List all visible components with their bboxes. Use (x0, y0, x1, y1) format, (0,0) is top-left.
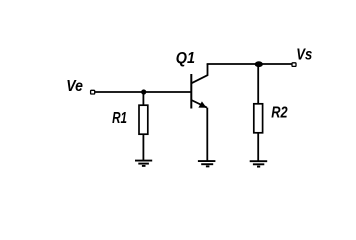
transistor Q1 collector lead (191, 64, 207, 83)
svg-text:R1: R1 (112, 110, 127, 127)
junction dot at collector node (255, 61, 263, 67)
ground below R2 (250, 161, 268, 166)
transistor Q1 emitter lead (191, 100, 207, 108)
transistor Q1 emitter arrow (198, 101, 206, 107)
wire: emitter down to ground (206, 108, 208, 161)
ground below emitter (198, 161, 216, 166)
wire: collector node down to R2 (257, 64, 259, 104)
transistor Q1 base bar (190, 74, 192, 109)
junction dot at base node (141, 89, 146, 94)
svg-text:Vs: Vs (296, 47, 312, 64)
wire: base node down to R1 (142, 92, 144, 105)
wire: R2 to ground (257, 133, 259, 161)
ground below R1 (135, 161, 152, 166)
svg-text:R2: R2 (271, 105, 287, 122)
svg-text:Q1: Q1 (176, 50, 195, 67)
node Ve (input terminal) (91, 90, 95, 94)
wire: collector to Vs terminal (207, 63, 292, 65)
wire: Ve terminal to base node (95, 91, 191, 93)
svg-text:Ve: Ve (66, 78, 83, 95)
wire: R1 to ground (142, 134, 144, 160)
resistor R2 (254, 104, 263, 133)
node Vs (output terminal) (292, 63, 296, 67)
resistor R1 (139, 105, 148, 134)
